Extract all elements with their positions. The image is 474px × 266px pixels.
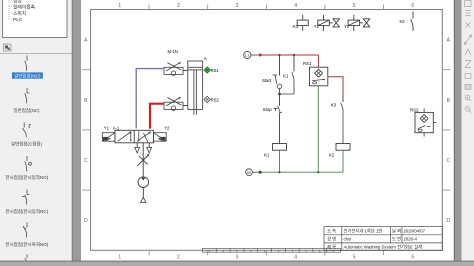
throttle valve (supply) <box>137 154 149 166</box>
svg-text:릴레이접촉: 릴레이접촉 <box>13 3 36 10</box>
svg-text:5: 5 <box>353 255 356 261</box>
svg-text:Y1: Y1 <box>314 24 320 29</box>
svg-text:K2: K2 <box>400 19 406 24</box>
svg-text:C: C <box>84 158 88 164</box>
junction dot (red, after L1) <box>259 54 262 57</box>
svg-text:3: 3 <box>236 3 239 9</box>
status bar <box>0 261 474 262</box>
svg-text:6: 6 <box>411 3 414 9</box>
sidebar toolbar icon <box>0 44 72 53</box>
solenoid Y2 <box>154 133 167 142</box>
junction dot (0V rail) <box>259 171 262 174</box>
flow control valve V1 (top) <box>164 62 183 75</box>
supply line from valve port 1 <box>142 143 144 177</box>
item3 C contact glyph <box>23 123 32 138</box>
svg-text:A-1: A-1 <box>113 125 120 130</box>
wire: rail into RS1 top (red) <box>318 55 320 67</box>
pushbutton Stop (NC) <box>274 106 282 113</box>
item7 partial glyph <box>25 255 27 261</box>
svg-text:1: 1 <box>118 255 121 261</box>
svg-text:Automatic Washing System 전기회로: Automatic Washing System 전기회로 설계 <box>344 244 423 251</box>
svg-text:2020-4: 2020-4 <box>404 237 418 242</box>
exhaust stub left <box>136 143 138 147</box>
svg-text:한시접점(한시동작NO): 한시접점(한시동작NO) <box>5 174 48 181</box>
title block <box>324 227 442 251</box>
svg-text:M-1N: M-1N <box>168 49 178 54</box>
scale bar at frame bottom <box>203 248 341 252</box>
item4 timer NO glyph <box>25 156 27 171</box>
node: rail/K1 junction <box>293 54 295 56</box>
reed switch RS2 box <box>415 108 436 136</box>
node: rail/start junction <box>278 54 280 56</box>
svg-text:Start: Start <box>262 78 272 83</box>
wire: coil K2 to bottom rail (green) <box>342 150 344 172</box>
flow control valve V2 (bottom) <box>164 97 183 110</box>
svg-text:2: 2 <box>177 3 180 9</box>
contact K3 (NO) <box>341 103 343 144</box>
svg-text:0V: 0V <box>247 171 252 175</box>
svg-text:5: 5 <box>353 3 356 9</box>
5/2 valve A-1 body <box>115 130 154 143</box>
svg-text:K3: K3 <box>293 24 299 29</box>
svg-text:K1: K1 <box>264 152 270 157</box>
valve solenoid Y1 symbol <box>318 15 340 31</box>
port stub V2 to cylinder <box>183 105 188 107</box>
wire: bottom rail (green) <box>260 171 343 173</box>
left splitter strip <box>72 0 81 261</box>
svg-text:K3: K3 <box>331 103 337 108</box>
terminal 0V <box>246 169 259 176</box>
svg-text:RS1: RS1 <box>303 61 312 66</box>
svg-text:1: 1 <box>118 3 121 9</box>
relay coil K2 <box>336 144 350 151</box>
exhaust triangle right <box>147 147 152 153</box>
svg-text:RS2: RS2 <box>410 107 419 112</box>
item2 NC contact glyph <box>25 88 30 103</box>
right toolbar background <box>462 0 474 261</box>
contact K1 (NO) <box>280 72 295 94</box>
svg-text:D: D <box>84 218 88 224</box>
wire: to Stop <box>279 94 281 106</box>
svg-text:제 목: 제 목 <box>327 244 336 251</box>
5/2 valve internals <box>118 131 152 142</box>
right canvas border + splitter <box>454 0 455 261</box>
svg-text:2020/04/07: 2020/04/07 <box>404 229 426 234</box>
exhaust stub right <box>148 143 150 147</box>
node: start/K1 join <box>278 93 281 96</box>
svg-text:PLC: PLC <box>13 17 23 23</box>
cylinder A body <box>188 61 203 110</box>
item6 timer return glyph <box>23 223 27 238</box>
cylinder A piston <box>188 66 202 68</box>
svg-text:스위치: 스위치 <box>13 10 26 17</box>
canvas white area <box>81 0 454 261</box>
svg-text:6: 6 <box>411 255 414 261</box>
svg-text:소 속: 소 속 <box>327 228 336 235</box>
relay coil K1 <box>273 144 287 151</box>
sensor RS2 (diamond on cylinder) <box>204 96 219 102</box>
svg-text:L1: L1 <box>245 54 249 58</box>
cylinder A piston rod <box>193 70 195 115</box>
terminal L1 <box>244 51 259 58</box>
svg-text:RS2: RS2 <box>211 97 220 102</box>
svg-text:4: 4 <box>294 255 297 261</box>
svg-text:choi: choi <box>344 237 352 242</box>
wire: Stop to coil K1 <box>279 113 281 144</box>
port stub V1 to cylinder <box>183 69 188 71</box>
svg-text:Y2: Y2 <box>344 24 350 29</box>
svg-text:K1: K1 <box>283 74 289 79</box>
selected item highlight + labels <box>12 72 43 78</box>
wire: top rail (red) <box>260 54 318 56</box>
compressor / air source circle <box>138 177 149 188</box>
contact K2 (NO, top right) <box>411 12 413 32</box>
valve solenoid Y2 symbol <box>348 15 370 31</box>
svg-text:일반접점(NO): 일반접점(NO) <box>14 72 41 78</box>
svg-text:3: 3 <box>236 255 239 261</box>
svg-text:한시접점(한시동작NC): 한시접점(한시동작NC) <box>5 208 48 215</box>
wire: drop to Start <box>279 55 281 76</box>
air supply triangle <box>141 197 146 202</box>
svg-text:A: A <box>204 56 207 61</box>
svg-text:2: 2 <box>177 255 180 261</box>
svg-text:한시접점(한시복귀NO): 한시접점(한시복귀NO) <box>5 241 48 248</box>
svg-text:성 명: 성 명 <box>327 236 336 242</box>
svg-text:접점: 접점 <box>13 0 22 4</box>
pushbutton Start (NO) <box>273 75 282 94</box>
wire red thick (5/2 valve port 2 to V2) <box>150 104 164 129</box>
svg-text:D: D <box>446 218 450 224</box>
svg-text:전기전자과 1학년 1반: 전기전자과 1학년 1반 <box>344 228 383 235</box>
svg-text:일반접점(NC): 일반접점(NC) <box>13 107 40 113</box>
line to supply triangle <box>142 188 144 198</box>
svg-text:Y2: Y2 <box>164 125 170 130</box>
svg-text:Stop: Stop <box>263 107 272 112</box>
svg-text:도 번: 도 번 <box>392 236 401 242</box>
svg-text:C: C <box>446 158 450 164</box>
svg-text:RS1: RS1 <box>211 68 220 73</box>
item5 timer NC glyph <box>22 190 30 205</box>
svg-text:일반접점(C접점): 일반접점(C접점) <box>11 140 43 146</box>
svg-text:4: 4 <box>294 3 297 9</box>
wire: coil K1 to bottom rail (green) <box>279 150 281 172</box>
svg-text:Y1: Y1 <box>104 125 110 130</box>
solenoid Y1 <box>102 133 115 142</box>
sensor RS1 (green diamond on cylinder) <box>204 67 219 73</box>
node: rail/RS1 junction <box>317 171 319 173</box>
item1 NO contact glyph <box>25 56 27 71</box>
wire: RS1 bottom to rail (green) <box>317 86 319 172</box>
svg-text:날 짜: 날 짜 <box>392 228 401 235</box>
wire: drop to K1 contact <box>293 55 295 71</box>
wire: RS1 right to K3 (red then dark) <box>328 77 343 97</box>
wire blue (5/2 valve port 4 to V1) <box>136 69 164 129</box>
node: rail/K1 coil junction <box>278 171 280 173</box>
exhaust triangle left <box>135 147 140 153</box>
reed switch RS1 box <box>310 67 328 86</box>
svg-text:K2: K2 <box>329 152 335 157</box>
relay coil K3 <box>297 15 308 31</box>
